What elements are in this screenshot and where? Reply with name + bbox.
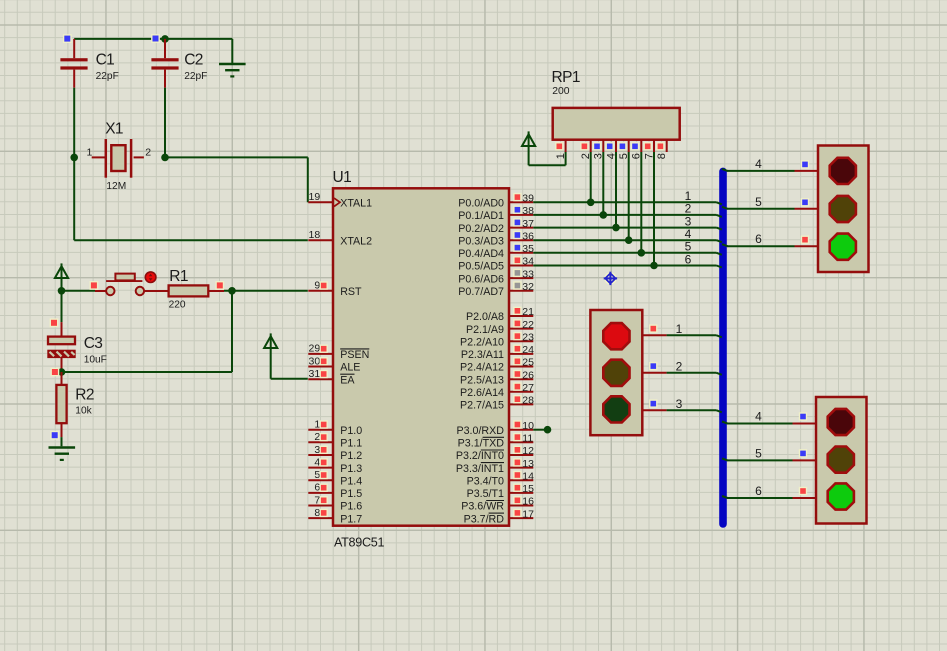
wire bus to TL1 lamp 5 bbox=[722, 207, 818, 209]
net label 3 bbox=[685, 214, 692, 228]
svg-text:P1.5: P1.5 bbox=[340, 488, 362, 500]
svg-text:P2.4/A12: P2.4/A12 bbox=[460, 362, 504, 374]
capacitor C3 10uF bbox=[48, 322, 107, 372]
svg-text:2: 2 bbox=[145, 147, 151, 159]
svg-text:29: 29 bbox=[309, 343, 321, 355]
svg-text:C3: C3 bbox=[84, 335, 103, 352]
pin state square TL3 4 bbox=[799, 412, 807, 420]
svg-text:4: 4 bbox=[755, 157, 762, 171]
pin state square C3 top bbox=[50, 318, 59, 327]
svg-text:RST: RST bbox=[340, 286, 362, 298]
svg-text:1: 1 bbox=[676, 322, 683, 336]
wire VCC to EA pin bbox=[271, 378, 308, 380]
wire bus to TL3 lamp 4 bbox=[722, 422, 816, 424]
svg-text:P2.1/A9: P2.1/A9 bbox=[466, 324, 504, 336]
net label 6 TL3 bbox=[755, 484, 762, 498]
net label 5 TL3 bbox=[755, 446, 762, 460]
svg-text:P3.7/RD: P3.7/RD bbox=[464, 513, 505, 525]
svg-text:5: 5 bbox=[755, 195, 762, 209]
svg-text:35: 35 bbox=[522, 243, 534, 255]
svg-text:P2.6/A14: P2.6/A14 bbox=[460, 387, 504, 399]
svg-text:5: 5 bbox=[755, 446, 762, 460]
svg-text:P1.2: P1.2 bbox=[340, 450, 362, 462]
pin state square TL3 5 bbox=[799, 449, 807, 457]
svg-text:33: 33 bbox=[522, 268, 534, 280]
net label 5 bbox=[685, 240, 692, 254]
traffic light TL3 bottom-right bbox=[816, 397, 867, 524]
svg-text:10uF: 10uF bbox=[84, 355, 107, 366]
pin state square R1 right bbox=[215, 281, 224, 290]
wire TL2 lamp 1 to bus bbox=[642, 335, 722, 337]
push button reset bbox=[95, 272, 169, 295]
node RP1 tap net 2 bbox=[600, 211, 608, 219]
node RP1 tap net 4 bbox=[625, 236, 633, 244]
net label 4 TL1 bbox=[755, 157, 762, 171]
svg-text:37: 37 bbox=[522, 218, 534, 230]
svg-text:AT89C51: AT89C51 bbox=[334, 535, 384, 549]
svg-text:36: 36 bbox=[522, 230, 534, 242]
svg-text:P1.4: P1.4 bbox=[340, 475, 362, 487]
net label 4 TL3 bbox=[755, 410, 762, 424]
svg-text:PSEN: PSEN bbox=[340, 349, 369, 361]
wire RP1 pin6 down to net 5 bbox=[640, 152, 642, 253]
power terminal VCC RP1 bbox=[522, 131, 535, 146]
node RP1 tap net 1 bbox=[587, 199, 595, 207]
wire TL2 lamp 3 to bus bbox=[642, 410, 722, 412]
net label 4 bbox=[685, 227, 692, 241]
svg-text:P3.1/TXD: P3.1/TXD bbox=[458, 438, 505, 450]
svg-text:30: 30 bbox=[309, 355, 321, 367]
microcontroller U1 AT89C51 body bbox=[333, 169, 510, 550]
clock input mark XTAL1 bbox=[334, 198, 340, 206]
wire X1 pin2 to XTAL1 bbox=[165, 157, 308, 202]
svg-text:24: 24 bbox=[522, 344, 534, 356]
svg-text:P3.6/WR: P3.6/WR bbox=[461, 501, 504, 513]
wire RP1 pin7 down to net 6 bbox=[653, 152, 655, 266]
node C3-R2 junction bbox=[58, 368, 66, 376]
node RP1 tap net 5 bbox=[638, 249, 646, 257]
ground top near C2 bbox=[219, 39, 246, 77]
svg-text:P0.2/AD2: P0.2/AD2 bbox=[458, 223, 504, 235]
svg-text:XTAL2: XTAL2 bbox=[340, 235, 372, 247]
svg-text:8: 8 bbox=[314, 507, 320, 519]
wire VCC to button bbox=[62, 290, 96, 292]
svg-text:34: 34 bbox=[522, 256, 534, 268]
wire RP1 pin1 to power bbox=[529, 147, 566, 166]
svg-text:P0.1/AD1: P0.1/AD1 bbox=[458, 210, 504, 222]
svg-text:26: 26 bbox=[522, 369, 534, 381]
wire TL2 lamp 2 to bus bbox=[642, 373, 722, 375]
svg-text:6: 6 bbox=[314, 482, 320, 494]
svg-text:EA: EA bbox=[340, 374, 355, 386]
svg-text:19: 19 bbox=[309, 191, 321, 203]
pin state square R2 bottom bbox=[50, 431, 59, 440]
svg-text:4: 4 bbox=[755, 410, 762, 424]
svg-text:17: 17 bbox=[522, 508, 534, 520]
svg-text:13: 13 bbox=[522, 458, 534, 470]
wire C1 to X1 pin1 bbox=[73, 88, 75, 158]
traffic light TL1 top-right bbox=[818, 146, 869, 273]
svg-text:P2.7/A15: P2.7/A15 bbox=[460, 400, 504, 412]
svg-text:22: 22 bbox=[522, 319, 534, 331]
capacitor C2 22pF bbox=[151, 39, 207, 88]
svg-text:P2.5/A13: P2.5/A13 bbox=[460, 374, 504, 386]
svg-text:1: 1 bbox=[314, 419, 320, 431]
svg-text:P3.3/INT1: P3.3/INT1 bbox=[456, 463, 504, 475]
svg-text:P1.3: P1.3 bbox=[340, 463, 362, 475]
pin state square TL1 6 bbox=[801, 236, 809, 244]
ground below R2 bbox=[49, 448, 76, 460]
wire P0.2 to bus net 3 bbox=[533, 228, 722, 230]
wire bus to TL1 lamp 4 bbox=[722, 169, 818, 171]
svg-text:25: 25 bbox=[522, 357, 534, 369]
capacitor C1 22pF bbox=[60, 39, 118, 88]
wire RP1 pin2 down to net 1 bbox=[590, 152, 592, 202]
svg-text:U1: U1 bbox=[333, 169, 352, 186]
svg-text:P1.1: P1.1 bbox=[340, 438, 362, 450]
node R1 RST junction bbox=[228, 287, 236, 295]
svg-text:6: 6 bbox=[685, 252, 692, 266]
resistor R1 220 bbox=[169, 268, 224, 311]
svg-text:6: 6 bbox=[755, 232, 762, 246]
svg-text:27: 27 bbox=[522, 382, 534, 394]
wire RP1 pin5 down to net 4 bbox=[628, 152, 630, 240]
wire bus to TL3 lamp 5 bbox=[722, 458, 816, 460]
svg-text:3: 3 bbox=[676, 397, 683, 411]
svg-text:2: 2 bbox=[676, 359, 683, 373]
wire R1 to RST bbox=[224, 290, 308, 292]
svg-text:P0.6/AD6: P0.6/AD6 bbox=[458, 273, 504, 285]
power terminal VCC reset bbox=[55, 263, 68, 290]
svg-text:P0.4/AD4: P0.4/AD4 bbox=[458, 248, 504, 260]
svg-text:38: 38 bbox=[522, 205, 534, 217]
svg-text:22pF: 22pF bbox=[96, 71, 119, 82]
svg-text:P1.7: P1.7 bbox=[340, 513, 362, 525]
svg-text:23: 23 bbox=[522, 332, 534, 344]
pin state square TL1 4 bbox=[801, 160, 809, 168]
svg-text:31: 31 bbox=[309, 368, 321, 380]
svg-text:P2.0/A8: P2.0/A8 bbox=[466, 311, 504, 323]
wire RP1 pin4 down to net 3 bbox=[615, 152, 617, 228]
bus vertical blue bbox=[719, 168, 727, 528]
net label 2 TL2 bbox=[676, 359, 683, 373]
node RP1 tap net 6 bbox=[650, 262, 658, 270]
net label 6 TL1 bbox=[755, 232, 762, 246]
node X1 pin1 junction bbox=[70, 154, 78, 162]
svg-text:P2.3/A11: P2.3/A11 bbox=[461, 349, 504, 361]
pin state square TL3 6 bbox=[799, 487, 807, 495]
svg-text:16: 16 bbox=[522, 496, 534, 508]
svg-text:9: 9 bbox=[314, 280, 320, 292]
svg-text:2: 2 bbox=[314, 431, 320, 443]
wire P0.0 to bus net 1 bbox=[533, 202, 722, 204]
svg-text:39: 39 bbox=[522, 193, 534, 205]
resistor pack RP1 200 bbox=[552, 69, 680, 159]
svg-text:P2.2/A10: P2.2/A10 bbox=[460, 337, 504, 349]
net label 1 TL2 bbox=[676, 322, 683, 336]
crystal X1 12M bbox=[86, 121, 151, 192]
pin state square TL2 3 bbox=[649, 399, 657, 407]
U1 right pins P0 P2 P3 bbox=[456, 193, 534, 526]
pin state square C2 top bbox=[151, 34, 160, 43]
wire P0.1 to bus net 2 bbox=[533, 215, 722, 217]
svg-text:28: 28 bbox=[522, 395, 534, 407]
svg-text:12M: 12M bbox=[106, 181, 126, 192]
wire VCC junction down to C3 bbox=[61, 291, 63, 322]
origin marker bbox=[604, 272, 617, 285]
node X1 pin2 junction bbox=[161, 154, 169, 162]
svg-text:P0.3/AD3: P0.3/AD3 bbox=[458, 235, 504, 247]
net label 5 TL1 bbox=[755, 195, 762, 209]
wire P0.5 to bus net 6 bbox=[533, 266, 722, 268]
svg-text:P3.0/RXD: P3.0/RXD bbox=[456, 425, 504, 437]
svg-text:P0.5/AD5: P0.5/AD5 bbox=[458, 261, 504, 273]
wire X1 pin1 to XTAL2 bbox=[74, 157, 308, 240]
pin state square C1 top bbox=[63, 34, 72, 43]
svg-text:10k: 10k bbox=[75, 406, 92, 417]
net label 1 bbox=[685, 189, 692, 203]
svg-text:X1: X1 bbox=[105, 121, 123, 138]
wire bus to TL3 lamp 6 bbox=[722, 496, 816, 498]
net label 3 TL2 bbox=[676, 397, 683, 411]
svg-text:12: 12 bbox=[522, 445, 534, 457]
svg-text:22pF: 22pF bbox=[184, 71, 207, 82]
pin state square TL2 1 bbox=[649, 324, 657, 332]
svg-text:1: 1 bbox=[86, 147, 92, 159]
svg-text:18: 18 bbox=[309, 229, 321, 241]
wire P3.0 stub bbox=[533, 429, 547, 431]
svg-text:P0.0/AD0: P0.0/AD0 bbox=[458, 198, 504, 210]
svg-text:220: 220 bbox=[169, 299, 186, 310]
svg-text:21: 21 bbox=[522, 306, 534, 318]
svg-text:R1: R1 bbox=[169, 268, 188, 285]
svg-text:4: 4 bbox=[314, 456, 320, 468]
resistor R2 10k bbox=[56, 372, 94, 437]
svg-text:32: 32 bbox=[522, 281, 534, 293]
svg-text:C2: C2 bbox=[184, 52, 203, 69]
svg-text:P1.0: P1.0 bbox=[340, 425, 362, 437]
node P3.0 wire end bbox=[544, 426, 552, 434]
net label 6 bbox=[685, 252, 692, 266]
wire R2 to ground bbox=[61, 437, 63, 446]
wire RP1 pin3 down to net 2 bbox=[602, 152, 604, 215]
wire VCC-top C1-C2-ground bbox=[74, 38, 232, 40]
pin state square TL2 2 bbox=[649, 362, 657, 370]
svg-text:C1: C1 bbox=[96, 52, 115, 69]
svg-text:P3.2/INT0: P3.2/INT0 bbox=[456, 450, 504, 462]
svg-text:P1.6: P1.6 bbox=[340, 501, 362, 513]
svg-text:10: 10 bbox=[522, 420, 534, 432]
svg-text:11: 11 bbox=[522, 433, 533, 445]
svg-text:P3.5/T1: P3.5/T1 bbox=[467, 488, 504, 500]
wire P0.4 to bus net 5 bbox=[533, 253, 722, 255]
svg-text:P0.7/AD7: P0.7/AD7 bbox=[458, 286, 504, 298]
svg-text:15: 15 bbox=[522, 483, 534, 495]
svg-text:RP1: RP1 bbox=[552, 69, 580, 86]
pin state square button left bbox=[90, 281, 99, 290]
svg-text:14: 14 bbox=[522, 470, 534, 482]
U1 left pins XTAL1 XTAL2 RST PSEN ALE EA P1.0-P1.7 bbox=[308, 191, 372, 525]
power terminal VCC EA bbox=[264, 333, 277, 378]
traffic light TL2 middle bbox=[590, 310, 642, 435]
svg-text:P3.4/T0: P3.4/T0 bbox=[467, 475, 504, 487]
wire C2 to X1 pin2 bbox=[164, 88, 166, 158]
node RP1 tap net 3 bbox=[612, 224, 620, 232]
wire P0.3 to bus net 4 bbox=[533, 240, 722, 242]
node C2 top junction bbox=[161, 35, 169, 43]
wire R1 junction down to C3 node bbox=[62, 291, 233, 372]
node reset VCC junction bbox=[58, 287, 66, 295]
svg-text:7: 7 bbox=[314, 494, 320, 506]
pin state square R2 top bbox=[51, 368, 60, 377]
svg-text:5: 5 bbox=[314, 469, 320, 481]
svg-text:6: 6 bbox=[755, 484, 762, 498]
svg-text:XTAL1: XTAL1 bbox=[340, 198, 372, 210]
svg-text:ALE: ALE bbox=[340, 362, 360, 374]
net label 2 bbox=[685, 202, 692, 216]
svg-text:R2: R2 bbox=[75, 386, 94, 403]
svg-text:200: 200 bbox=[552, 86, 570, 97]
svg-text:8: 8 bbox=[656, 153, 668, 159]
pin state square TL1 5 bbox=[801, 198, 809, 206]
wire bus to TL1 lamp 6 bbox=[722, 244, 818, 246]
svg-text:3: 3 bbox=[314, 444, 320, 456]
